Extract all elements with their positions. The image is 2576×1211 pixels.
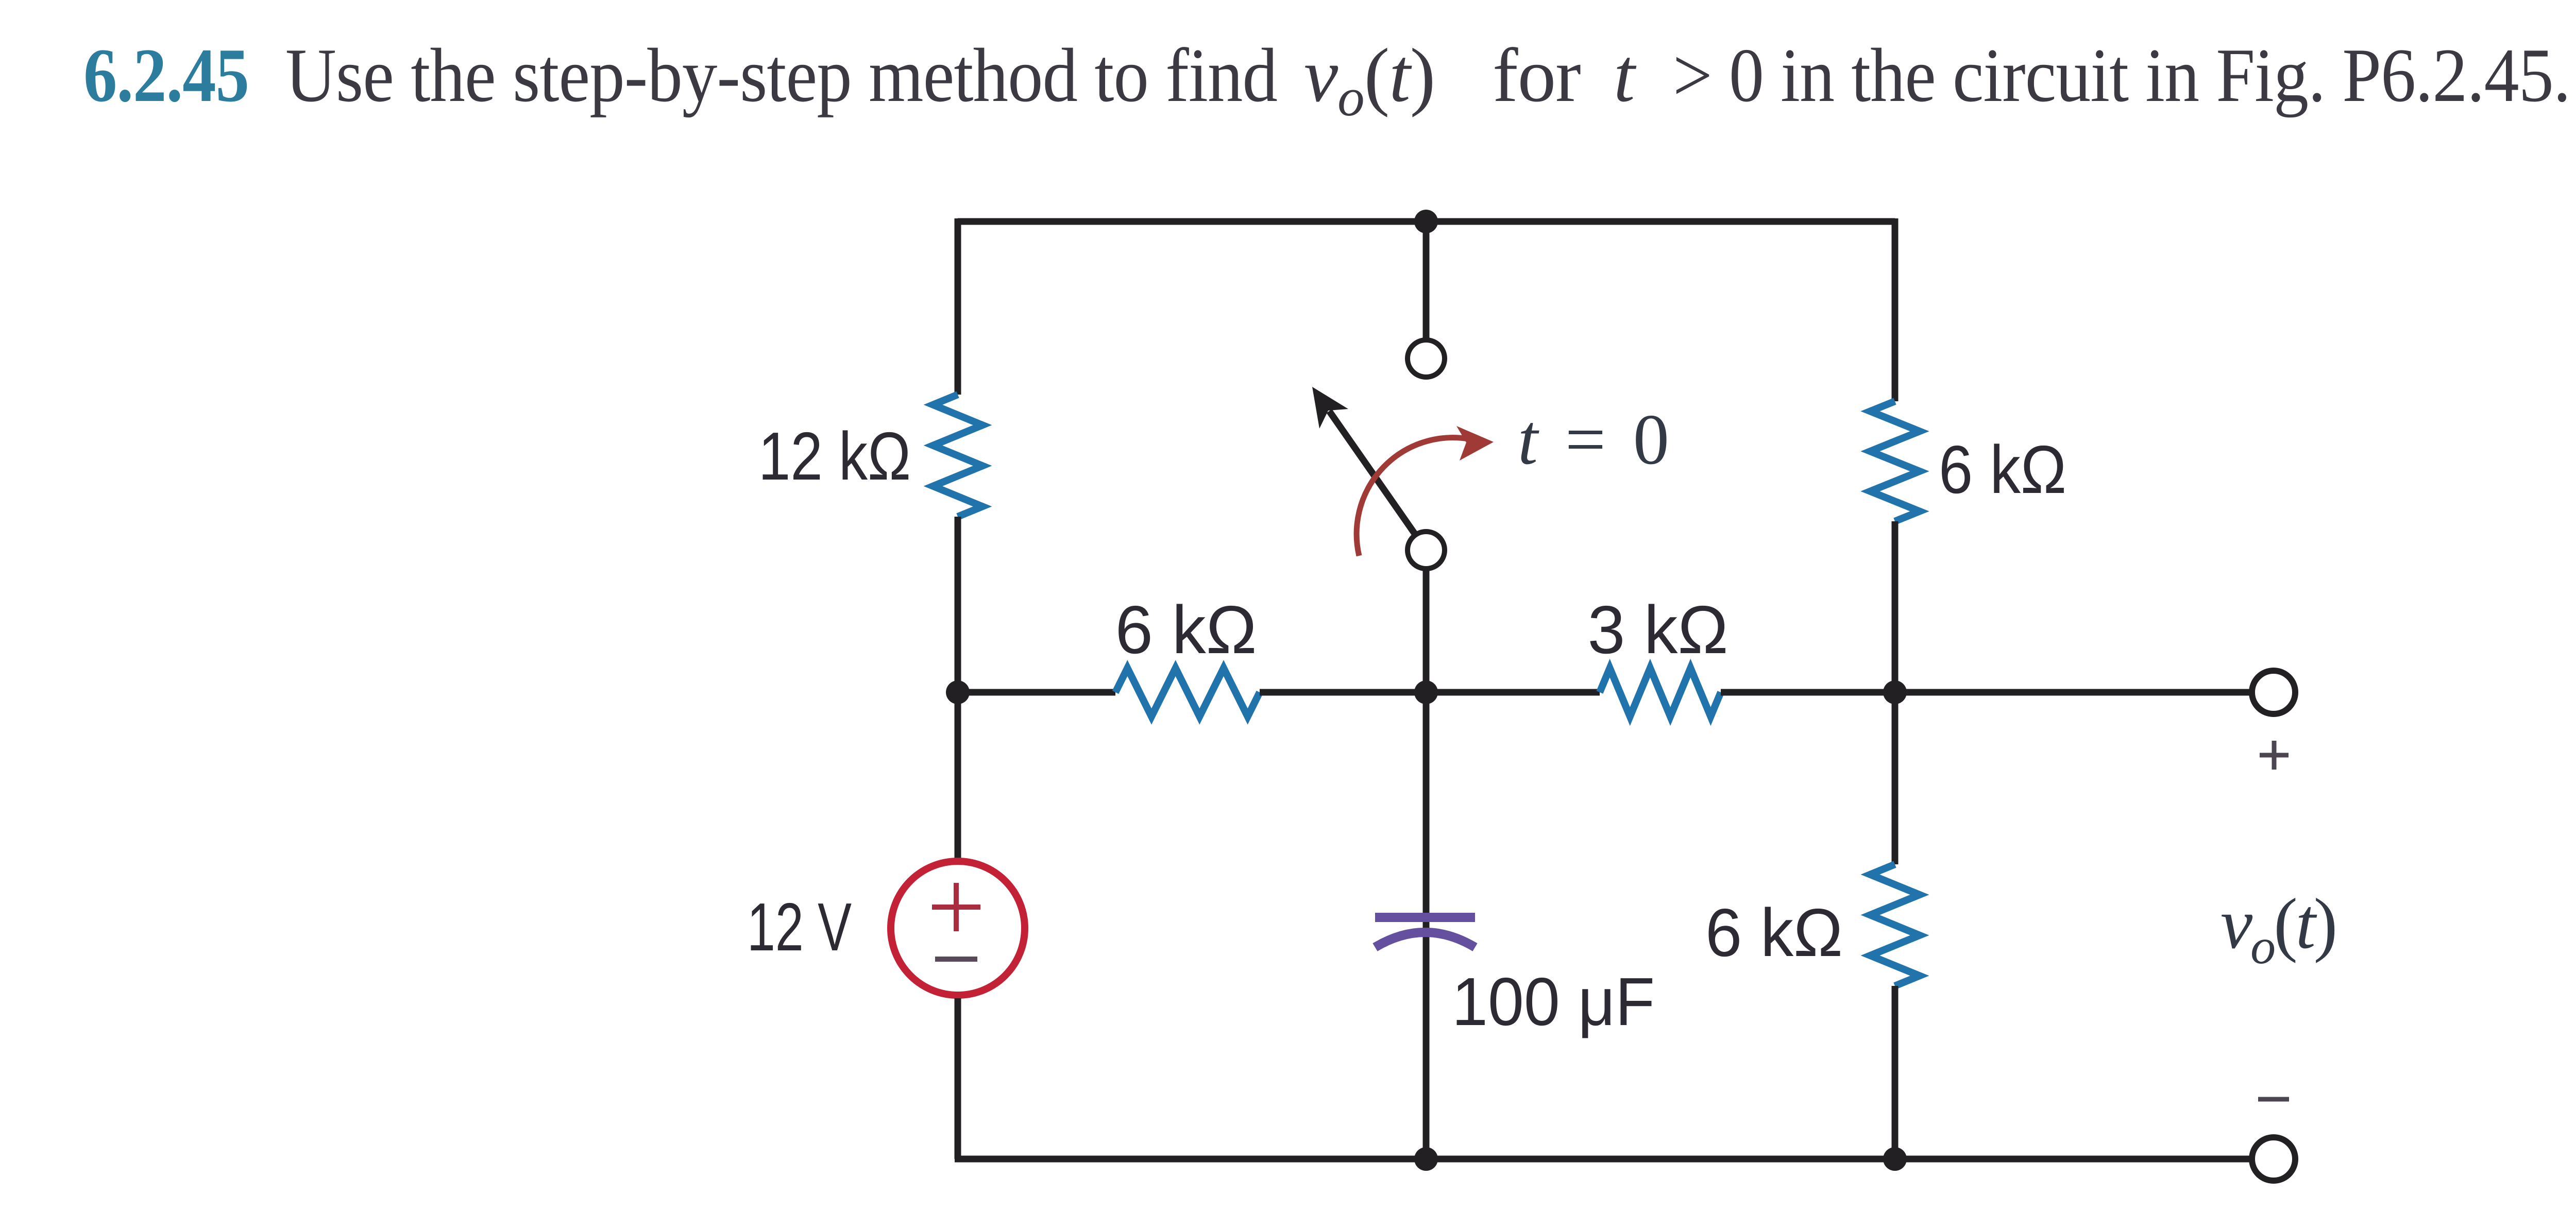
- node top middle: [1414, 210, 1438, 233]
- output plus sign: [2260, 741, 2289, 770]
- voltage source V1 12V: [891, 861, 1025, 995]
- output terminal plus: [2252, 671, 2295, 714]
- wire bottom: [955, 1156, 2252, 1163]
- wire right vertical upper: [1892, 218, 1899, 401]
- resistor 3 kOhm: [1600, 668, 1721, 717]
- svg-text:t = 0: t = 0: [1518, 400, 1674, 480]
- switch arm: [1312, 387, 1416, 535]
- wire left vertical lower: [955, 998, 961, 1159]
- svg-text:12 V: 12 V: [747, 889, 852, 965]
- svg-text:100 μF: 100 μF: [1452, 964, 1655, 1039]
- svg-text:6 kΩ: 6 kΩ: [1115, 592, 1257, 668]
- wire right vertical lower: [1892, 986, 1899, 1159]
- node right middle: [1883, 680, 1907, 704]
- wire middle stub from top: [1423, 221, 1430, 340]
- output minus sign: [2258, 1097, 2289, 1102]
- svg-text:12 kΩ: 12 kΩ: [758, 418, 911, 494]
- node bottom middle: [1414, 1147, 1438, 1171]
- svg-text:6 kΩ: 6 kΩ: [1705, 895, 1843, 970]
- resistor 6 kOhm upper right: [1870, 401, 1920, 521]
- svg-text:6 kΩ: 6 kΩ: [1939, 432, 2066, 507]
- resistor 12 kOhm: [933, 395, 982, 517]
- resistor 6 kOhm horizontal: [1115, 668, 1260, 717]
- resistor 6 kOhm lower right: [1870, 864, 1920, 986]
- switch lower contact: [1408, 532, 1445, 569]
- wire right vertical middle: [1892, 521, 1899, 864]
- wire middle horizontal right to output: [1721, 689, 2252, 696]
- node center middle: [1414, 680, 1438, 704]
- capacitor 100uF: [1375, 917, 1475, 947]
- wire middle horizontal left: [958, 689, 1115, 696]
- svg-text:vo(t): vo(t): [2221, 884, 2335, 975]
- output terminal minus: [2252, 1137, 2295, 1181]
- wire left vertical middle: [955, 517, 961, 858]
- wire left vertical upper: [955, 218, 961, 395]
- svg-text:6.2.45Use the step-by-step met: 6.2.45Use the step-by-step method to fin…: [83, 33, 2570, 127]
- wire middle vertical: [1423, 569, 1430, 1159]
- svg-text:3 kΩ: 3 kΩ: [1588, 592, 1728, 668]
- switch upper contact: [1408, 340, 1445, 377]
- switch t=0 arc arrow: [1357, 426, 1494, 556]
- heading problem statement: [83, 33, 2570, 127]
- node left middle: [946, 680, 970, 704]
- wire middle horizontal center: [1260, 689, 1600, 696]
- wire top: [958, 218, 1895, 225]
- node bottom right: [1883, 1147, 1907, 1171]
